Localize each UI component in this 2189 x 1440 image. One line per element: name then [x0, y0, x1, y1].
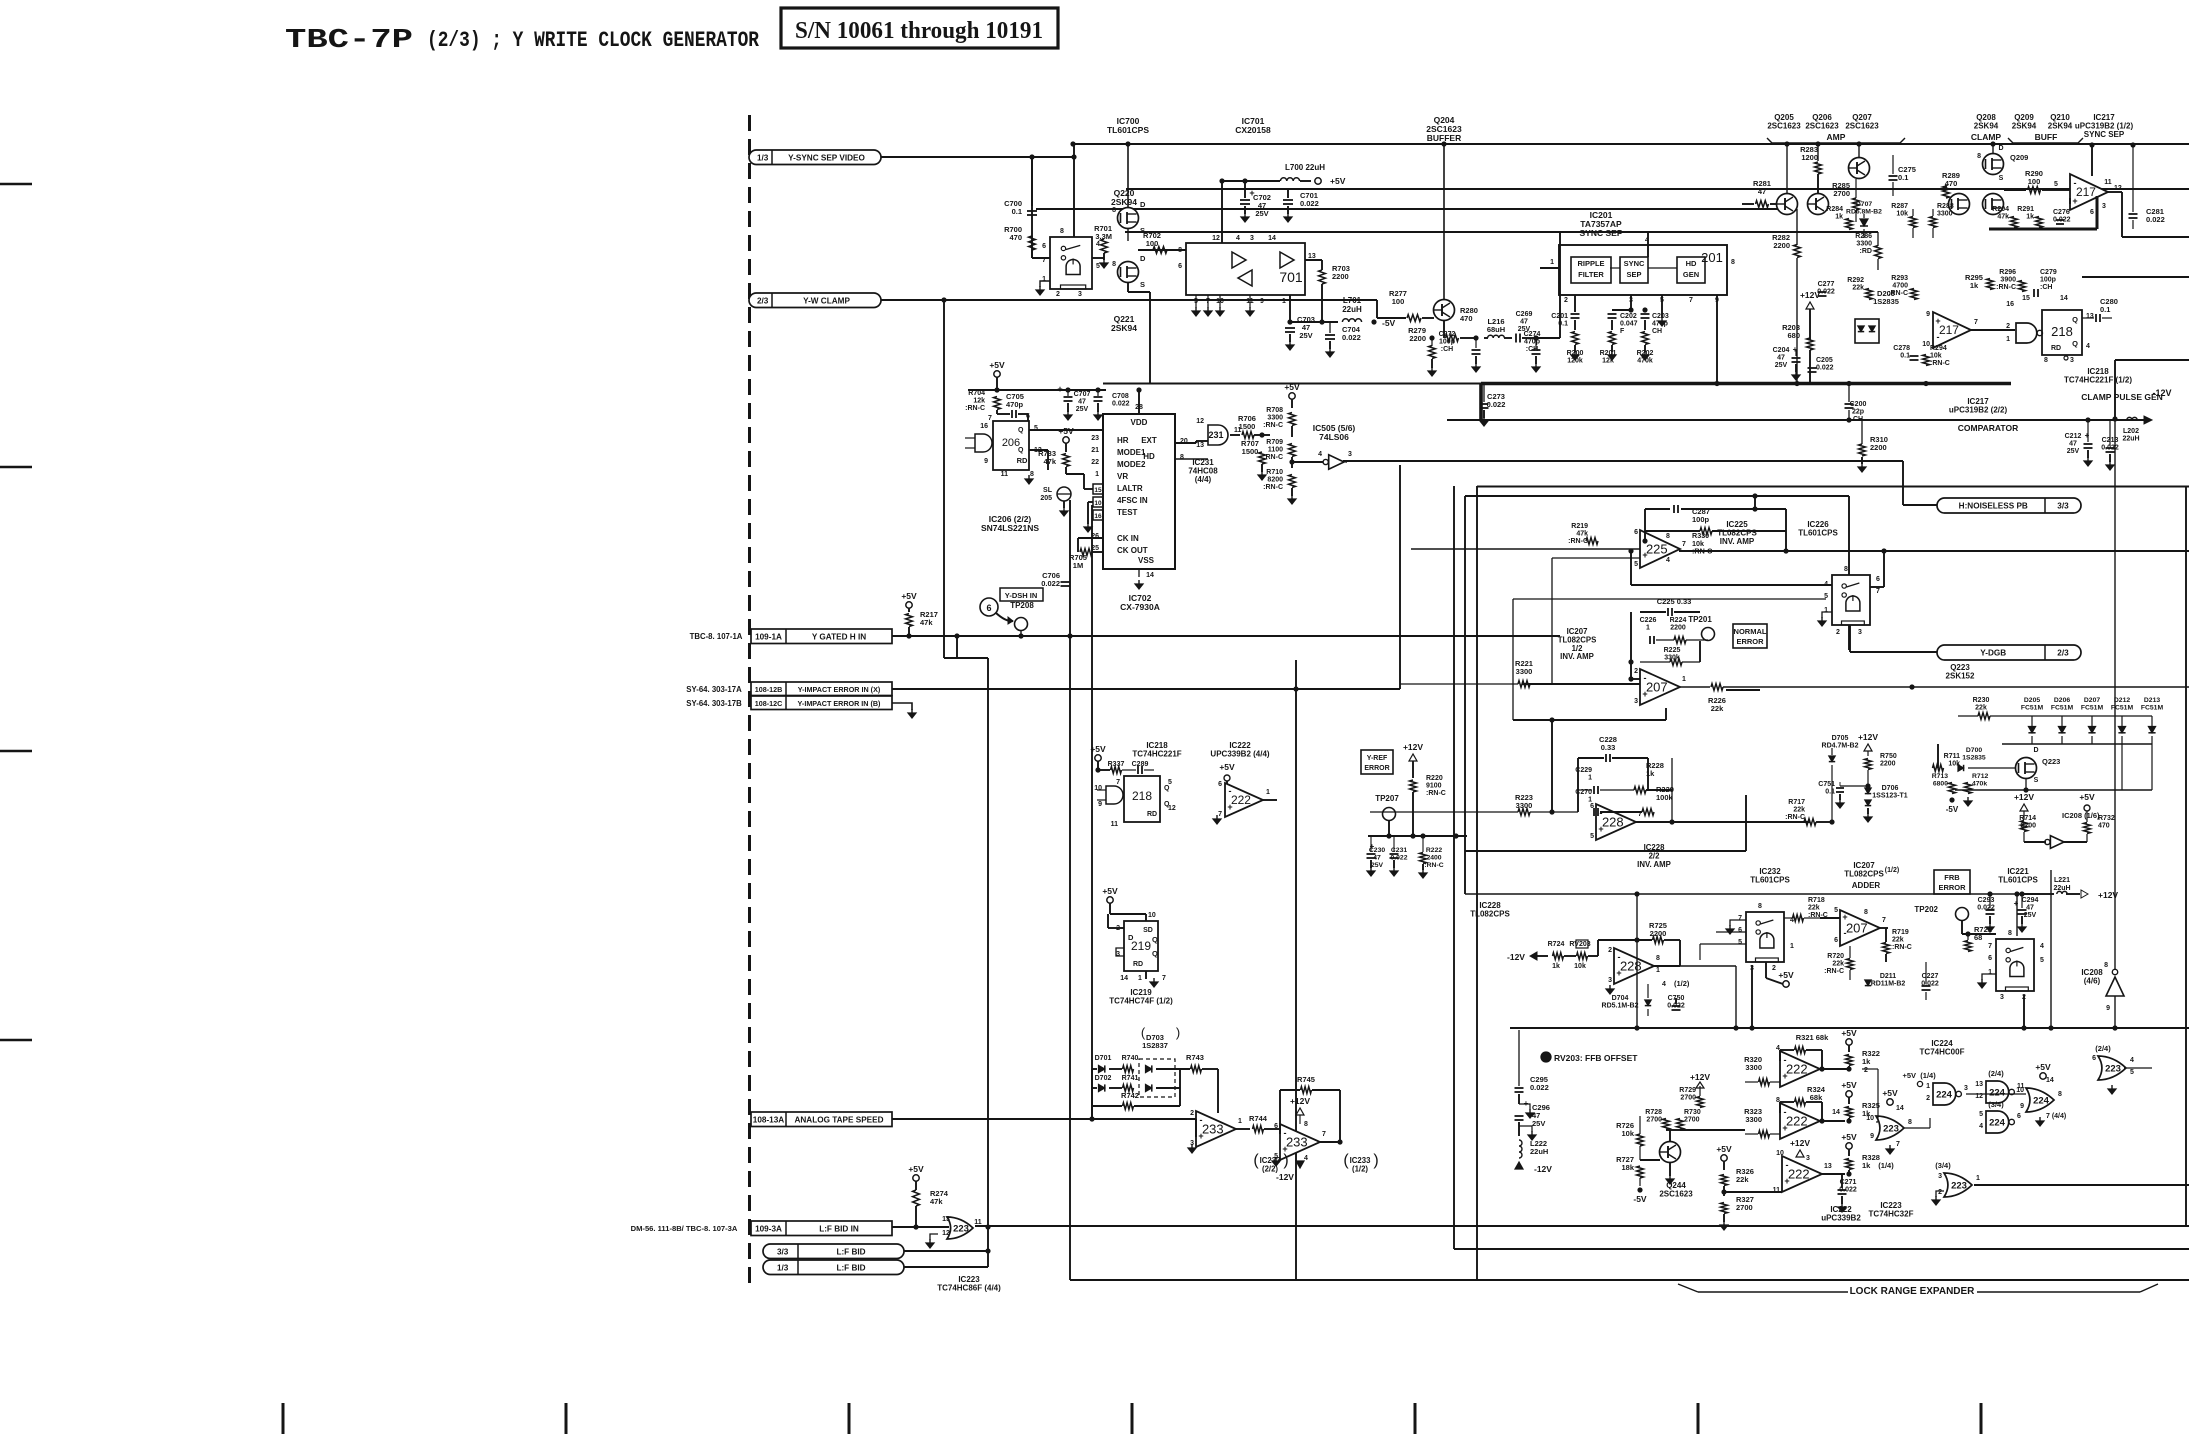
svg-text:22p: 22p: [1852, 409, 1864, 416]
svg-text:8: 8: [1178, 247, 1182, 254]
svg-text:701: 701: [1279, 269, 1303, 285]
svg-text:EXT: EXT: [1141, 436, 1157, 445]
svg-text:2SK94: 2SK94: [2012, 122, 2037, 131]
svg-text:218: 218: [1132, 789, 1152, 803]
svg-text:C202: C202: [1620, 313, 1637, 320]
svg-text:2700: 2700: [1646, 1117, 1662, 1124]
svg-text:D211: D211: [1880, 973, 1896, 980]
svg-text:ERROR: ERROR: [1938, 883, 1966, 892]
svg-text:10: 10: [1866, 1115, 1874, 1122]
svg-text:TL601CPS: TL601CPS: [1998, 876, 2038, 885]
svg-text:-12V: -12V: [2152, 388, 2171, 398]
svg-text:D: D: [1140, 200, 1146, 209]
svg-text:22k: 22k: [1711, 704, 1724, 713]
svg-text:0.022: 0.022: [1112, 401, 1130, 408]
svg-text:25V: 25V: [1076, 406, 1089, 413]
svg-text:25V: 25V: [1532, 1119, 1545, 1128]
svg-text:VR: VR: [1117, 472, 1128, 481]
svg-text:10k: 10k: [1930, 353, 1942, 360]
svg-text:1: 1: [1824, 607, 1828, 614]
svg-text:R740: R740: [1122, 1055, 1139, 1062]
svg-text:1: 1: [2006, 336, 2010, 343]
svg-text:47: 47: [2026, 905, 2034, 912]
svg-text:3: 3: [2102, 203, 2106, 210]
svg-text:9: 9: [1870, 1133, 1874, 1140]
svg-text:TL601CPS: TL601CPS: [1107, 125, 1149, 135]
svg-text:+5V: +5V: [1841, 1132, 1857, 1142]
svg-text:7: 7: [1218, 811, 1222, 818]
svg-text:25: 25: [1091, 545, 1099, 552]
svg-text:(4/4): (4/4): [1195, 475, 1212, 484]
svg-text:1: 1: [1976, 1175, 1980, 1182]
svg-text:22k: 22k: [1832, 961, 1844, 968]
svg-text:2200: 2200: [1773, 241, 1790, 250]
svg-text:ADDER: ADDER: [1852, 881, 1881, 890]
svg-text:CX-7930A: CX-7930A: [1120, 602, 1160, 612]
svg-text:1100: 1100: [1268, 447, 1283, 454]
svg-text:7: 7: [1689, 297, 1693, 304]
svg-text:(1/4): (1/4): [1878, 1161, 1894, 1170]
svg-text:R718: R718: [1808, 897, 1825, 904]
svg-text:25V: 25V: [1371, 862, 1384, 869]
svg-text:TL601CPS: TL601CPS: [1798, 529, 1838, 538]
svg-text:224: 224: [2033, 1095, 2050, 1106]
svg-text:D705: D705: [1832, 735, 1849, 742]
svg-text:3300: 3300: [1516, 801, 1533, 810]
svg-text:9: 9: [1260, 298, 1264, 305]
svg-text:10: 10: [1094, 785, 1102, 792]
svg-text:1: 1: [1238, 1118, 1242, 1125]
svg-text:FILTER: FILTER: [1578, 270, 1604, 279]
svg-text:D: D: [1998, 145, 2003, 152]
svg-text:TL601CPS: TL601CPS: [1750, 876, 1790, 885]
svg-text:Y GATED H IN: Y GATED H IN: [812, 632, 866, 641]
svg-text:R296: R296: [1999, 269, 2016, 276]
svg-text:R200: R200: [1567, 350, 1584, 357]
svg-text:C279: C279: [2040, 269, 2057, 276]
svg-text:1: 1: [1095, 471, 1099, 478]
svg-text:7: 7: [1738, 915, 1742, 922]
svg-text:6: 6: [986, 603, 991, 613]
svg-text::RN-C: :RN-C: [1263, 454, 1283, 461]
svg-text:22uH: 22uH: [1530, 1147, 1548, 1156]
svg-text:R337: R337: [1108, 761, 1125, 768]
svg-text:RIPPLE: RIPPLE: [1577, 259, 1604, 268]
svg-text:5: 5: [1979, 1111, 1983, 1118]
svg-text:2SC1623: 2SC1623: [1659, 1190, 1693, 1199]
svg-text:D707: D707: [1856, 201, 1872, 208]
svg-text:R712: R712: [1972, 773, 1988, 780]
svg-text:LALTR: LALTR: [1117, 484, 1143, 493]
svg-text:0.022: 0.022: [1041, 579, 1060, 588]
svg-text:D206: D206: [2054, 697, 2070, 704]
svg-text:6: 6: [1634, 529, 1638, 536]
svg-text:+: +: [1784, 1176, 1789, 1186]
svg-text:2SC1623: 2SC1623: [1845, 122, 1879, 131]
svg-text:R219: R219: [1571, 523, 1588, 530]
svg-text:C203: C203: [1652, 313, 1669, 320]
svg-text:10: 10: [1922, 341, 1930, 348]
svg-text:74LS06: 74LS06: [1319, 432, 1349, 442]
svg-text:3: 3: [1116, 951, 1120, 958]
svg-text:1/3: 1/3: [757, 153, 769, 162]
svg-text:14: 14: [1268, 235, 1276, 242]
svg-text:5: 5: [2054, 181, 2058, 188]
svg-text:TC74HC32F: TC74HC32F: [1869, 1210, 1914, 1219]
svg-text:7 (4/4): 7 (4/4): [2046, 1113, 2066, 1120]
svg-text:11: 11: [1001, 471, 1009, 478]
svg-text:15: 15: [2022, 295, 2030, 302]
svg-text:R742: R742: [1121, 1091, 1139, 1100]
svg-text:+5V: +5V: [1882, 1088, 1898, 1098]
svg-text:12: 12: [2114, 185, 2122, 192]
svg-text:+5V: +5V: [908, 1164, 924, 1174]
svg-text:(1/2): (1/2): [1674, 979, 1690, 988]
svg-text:R284: R284: [1826, 206, 1843, 213]
svg-text:-: -: [1937, 332, 1940, 342]
svg-text:22k: 22k: [1736, 1175, 1749, 1184]
svg-text:Q: Q: [1164, 785, 1170, 792]
svg-text:MODE1: MODE1: [1117, 448, 1146, 457]
svg-text:6: 6: [1274, 1123, 1278, 1130]
svg-text:8: 8: [1864, 909, 1868, 916]
svg-text:-: -: [1600, 808, 1603, 818]
svg-text:+: +: [1198, 1131, 1203, 1141]
svg-text:1k: 1k: [1552, 963, 1560, 970]
svg-text:22k: 22k: [1852, 285, 1864, 292]
svg-text:2SC1623: 2SC1623: [1767, 122, 1801, 131]
svg-text:22uH: 22uH: [1342, 305, 1362, 314]
svg-text:RD4.7M-B2: RD4.7M-B2: [1822, 743, 1859, 750]
svg-text:C212: C212: [2065, 433, 2082, 440]
svg-text:14: 14: [1896, 1105, 1904, 1112]
svg-text:1200: 1200: [1801, 153, 1818, 162]
svg-text:100p: 100p: [2040, 277, 2056, 284]
svg-text:6: 6: [1218, 781, 1222, 788]
svg-text:+5V: +5V: [1090, 744, 1106, 754]
svg-text:2/3: 2/3: [757, 296, 769, 305]
svg-text:RD: RD: [1017, 456, 1028, 465]
svg-text:Y-DSH IN: Y-DSH IN: [1005, 591, 1038, 600]
svg-text:(1/4): (1/4): [1920, 1071, 1936, 1080]
svg-text:470k: 470k: [1637, 358, 1653, 365]
svg-text:11: 11: [974, 1219, 982, 1226]
svg-text:D207: D207: [2084, 697, 2100, 704]
svg-text:R201: R201: [1600, 350, 1617, 357]
svg-text:): ): [1283, 1152, 1288, 1169]
svg-text:VDD: VDD: [1131, 418, 1148, 427]
svg-text:R708: R708: [1266, 407, 1283, 414]
svg-text:+: +: [1524, 1099, 1529, 1108]
svg-text:CH: CH: [1652, 328, 1662, 335]
svg-text:(1/2): (1/2): [1885, 867, 1899, 874]
svg-text:uPC319B2 (2/2): uPC319B2 (2/2): [1949, 406, 2008, 415]
svg-text:2: 2: [2006, 323, 2010, 330]
svg-text:2: 2: [1190, 1110, 1194, 1117]
svg-text:+: +: [1842, 912, 1847, 922]
svg-text:470: 470: [1009, 233, 1022, 242]
svg-text:C204: C204: [1773, 347, 1790, 354]
svg-text:C276: C276: [2053, 209, 2070, 216]
svg-text::CH: :CH: [1441, 346, 1453, 353]
svg-text:10: 10: [1148, 912, 1156, 919]
svg-text::RN-C: :RN-C: [1996, 284, 2016, 291]
svg-text:2: 2: [1772, 965, 1776, 972]
svg-text:+: +: [2085, 431, 2090, 440]
svg-text:IC208 (1/6): IC208 (1/6): [2062, 811, 2100, 820]
svg-text:+5V: +5V: [1330, 176, 1346, 186]
svg-text:6: 6: [1178, 263, 1182, 270]
svg-text:1/3: 1/3: [777, 1263, 789, 1272]
svg-text:): ): [1373, 1152, 1378, 1169]
svg-text:D704: D704: [1612, 995, 1629, 1002]
svg-text:INV. AMP: INV. AMP: [1637, 860, 1671, 869]
svg-text::RN-C: :RN-C: [1892, 944, 1912, 951]
svg-text:22k: 22k: [1892, 937, 1904, 944]
svg-text:5: 5: [1738, 939, 1742, 946]
svg-text:(1/2): (1/2): [1352, 1164, 1368, 1173]
svg-text:-: -: [1618, 952, 1621, 962]
svg-text:18k: 18k: [1621, 1163, 1634, 1172]
svg-text:C708: C708: [1112, 393, 1129, 400]
svg-text:R709: R709: [1266, 439, 1283, 446]
svg-text:6: 6: [2017, 1113, 2021, 1120]
svg-text:225: 225: [1646, 542, 1668, 557]
svg-text:R220: R220: [1426, 775, 1443, 782]
svg-text:47k: 47k: [920, 618, 933, 627]
svg-text:3: 3: [1858, 629, 1862, 636]
svg-text:Y-DGB: Y-DGB: [1980, 649, 2006, 658]
svg-text:14: 14: [1832, 1109, 1840, 1116]
svg-text:7: 7: [1896, 1141, 1900, 1148]
svg-text:11: 11: [2104, 179, 2112, 186]
svg-text:13: 13: [942, 1216, 950, 1223]
svg-text:2200: 2200: [1332, 272, 1349, 281]
svg-text:+: +: [1782, 1071, 1787, 1081]
svg-text:(3/4): (3/4): [1988, 1100, 2004, 1109]
svg-text:Q: Q: [1152, 935, 1158, 944]
svg-text:R730: R730: [1684, 1109, 1701, 1116]
svg-text:4700: 4700: [1892, 283, 1908, 290]
svg-text:R743: R743: [1186, 1053, 1204, 1062]
svg-text:FC51M: FC51M: [2141, 704, 2164, 711]
svg-text:+5V: +5V: [1902, 1071, 1916, 1080]
svg-text:1k: 1k: [1862, 1057, 1871, 1066]
svg-text:Q: Q: [1018, 427, 1024, 434]
svg-text:222: 222: [1231, 793, 1251, 807]
svg-text:47k: 47k: [1576, 531, 1588, 538]
svg-text:TL082CPS: TL082CPS: [1470, 910, 1510, 919]
svg-text:D213: D213: [2144, 697, 2160, 704]
svg-text:C278: C278: [1893, 345, 1910, 352]
svg-text:3300: 3300: [1745, 1063, 1762, 1072]
svg-text:222: 222: [1788, 1167, 1810, 1182]
svg-text:BUFF: BUFF: [2035, 132, 2058, 142]
svg-text::RN-C: :RN-C: [1568, 538, 1588, 545]
svg-text:2700: 2700: [1736, 1203, 1753, 1212]
svg-text:+: +: [1782, 1123, 1787, 1133]
svg-text:-12V: -12V: [1276, 1172, 1294, 1182]
svg-text:4: 4: [1979, 1123, 1983, 1130]
svg-text:1k: 1k: [1970, 281, 1979, 290]
svg-text:3300: 3300: [1267, 415, 1283, 422]
svg-text:224: 224: [1989, 1088, 2006, 1099]
svg-text::RN-C: :RN-C: [1426, 790, 1446, 797]
svg-text:+: +: [1935, 316, 1940, 326]
svg-text:3: 3: [1806, 1155, 1810, 1162]
svg-text:8: 8: [2008, 930, 2012, 937]
svg-text:R711: R711: [1944, 753, 1960, 760]
svg-text:7: 7: [1322, 1131, 1326, 1138]
svg-text:9100: 9100: [1426, 783, 1442, 790]
svg-text:12: 12: [1196, 418, 1204, 425]
svg-text:+: +: [1598, 824, 1603, 834]
svg-text:8: 8: [1758, 903, 1762, 910]
svg-text:+: +: [2014, 899, 2019, 908]
svg-text:25V: 25V: [1775, 362, 1788, 369]
svg-text:6: 6: [1738, 927, 1742, 934]
svg-text:205: 205: [1040, 495, 1052, 502]
svg-text:5: 5: [1590, 833, 1594, 840]
svg-text:D205: D205: [2024, 697, 2040, 704]
svg-text:0.33: 0.33: [1601, 743, 1616, 752]
svg-text:1k: 1k: [1862, 1161, 1871, 1170]
svg-text:3900: 3900: [2000, 277, 2016, 284]
svg-text:-: -: [1200, 1115, 1203, 1125]
svg-text:R222: R222: [1426, 847, 1442, 854]
svg-text:2: 2: [1938, 1189, 1942, 1196]
svg-text:1: 1: [1282, 298, 1286, 305]
svg-text:C751: C751: [1818, 781, 1835, 788]
svg-text:1500: 1500: [1242, 447, 1259, 456]
svg-text:SY-64. 303-17A: SY-64. 303-17A: [686, 685, 742, 694]
svg-text:1: 1: [1646, 625, 1650, 632]
svg-text:1M: 1M: [1073, 561, 1083, 570]
svg-text:5: 5: [2040, 957, 2044, 964]
svg-text:470p: 470p: [1006, 400, 1024, 409]
svg-text:TP201: TP201: [1688, 615, 1712, 624]
svg-text:Q: Q: [1018, 447, 1024, 454]
svg-text:217: 217: [1939, 323, 1959, 337]
svg-text:+12V: +12V: [1290, 1096, 1310, 1106]
svg-text:+5V: +5V: [1716, 1144, 1732, 1154]
svg-text:207: 207: [1646, 680, 1668, 695]
svg-text:8: 8: [1908, 1119, 1912, 1126]
svg-text:4: 4: [2130, 1057, 2134, 1064]
svg-text:2200: 2200: [1870, 443, 1887, 452]
svg-text:SEP: SEP: [1626, 270, 1641, 279]
svg-text:S/N 10061 through 10191: S/N 10061 through 10191: [795, 18, 1043, 44]
svg-text:1k: 1k: [1646, 769, 1655, 778]
svg-text:3: 3: [1348, 451, 1352, 458]
svg-text:1: 1: [1266, 789, 1270, 796]
svg-text:8200: 8200: [1267, 477, 1283, 484]
svg-text:CX20158: CX20158: [1235, 125, 1271, 135]
svg-text:D: D: [1128, 933, 1134, 942]
svg-text:1: 1: [1790, 943, 1794, 950]
svg-text:2: 2: [1056, 291, 1060, 298]
svg-text:-: -: [1784, 1055, 1787, 1065]
svg-text:47k: 47k: [930, 1197, 943, 1206]
svg-text:2200: 2200: [1650, 929, 1667, 938]
svg-text:0.022: 0.022: [1816, 365, 1834, 372]
svg-text:14: 14: [2060, 295, 2068, 302]
svg-text:6: 6: [2090, 209, 2094, 216]
svg-text:218: 218: [2051, 324, 2073, 339]
svg-text:2SK94: 2SK94: [1111, 197, 1137, 207]
svg-text:Y-IMPACT ERROR IN (X): Y-IMPACT ERROR IN (X): [798, 685, 881, 694]
svg-text:R293: R293: [1891, 275, 1908, 282]
svg-text:0.022: 0.022: [1300, 199, 1319, 208]
svg-text:C707: C707: [1074, 391, 1091, 398]
svg-text:0.1: 0.1: [1012, 207, 1022, 216]
svg-text:9: 9: [2020, 1103, 2024, 1110]
svg-text:3: 3: [1634, 698, 1638, 705]
svg-text:12: 12: [1212, 235, 1220, 242]
svg-text:4: 4: [1662, 981, 1666, 988]
svg-text:-: -: [1784, 1107, 1787, 1117]
svg-text:+: +: [1057, 384, 1062, 394]
svg-text:SD: SD: [1143, 927, 1153, 934]
svg-text:MODE2: MODE2: [1117, 460, 1146, 469]
svg-text:D700: D700: [1966, 747, 1982, 754]
svg-text:1S2837: 1S2837: [1142, 1041, 1168, 1050]
svg-text:8: 8: [1180, 454, 1184, 461]
svg-text:4: 4: [1236, 235, 1240, 242]
svg-text:Y-REF: Y-REF: [1367, 755, 1388, 762]
svg-text:219: 219: [1131, 939, 1151, 953]
svg-text:2: 2: [1926, 1095, 1930, 1102]
svg-text:CLAMP PULSE GEN: CLAMP PULSE GEN: [2081, 392, 2163, 402]
svg-text:222: 222: [1786, 1062, 1808, 1077]
svg-text:470k: 470k: [1972, 780, 1987, 787]
svg-text:6: 6: [1026, 413, 1030, 420]
svg-text:TEST: TEST: [1117, 508, 1138, 517]
svg-text:TC74HC86F (4/4): TC74HC86F (4/4): [937, 1284, 1001, 1293]
svg-text:1S2835: 1S2835: [1962, 754, 1986, 761]
svg-text:L701: L701: [1343, 296, 1362, 305]
svg-text:6: 6: [1834, 937, 1838, 944]
svg-text:10k: 10k: [1896, 211, 1908, 218]
svg-text:5: 5: [1634, 561, 1638, 568]
svg-text::RN-C: :RN-C: [1263, 422, 1283, 429]
svg-text:12k: 12k: [1602, 358, 1614, 365]
svg-text:+5V: +5V: [1778, 970, 1794, 980]
svg-text:INV. AMP: INV. AMP: [1560, 652, 1594, 661]
svg-text:1: 1: [1926, 1083, 1930, 1090]
svg-text:2: 2: [1836, 629, 1840, 636]
svg-text:8: 8: [2104, 962, 2108, 969]
svg-text:RD: RD: [2051, 345, 2061, 352]
svg-text:ERROR: ERROR: [1736, 637, 1764, 646]
svg-text::RD: :RD: [1860, 248, 1872, 255]
svg-text:R729: R729: [1679, 1087, 1696, 1094]
svg-text:233: 233: [1286, 1135, 1308, 1150]
svg-text:7: 7: [988, 415, 992, 422]
svg-text:9: 9: [1926, 311, 1930, 318]
svg-text:D701: D701: [1095, 1055, 1112, 1062]
svg-text:TP207: TP207: [1375, 794, 1399, 803]
svg-text:-: -: [2074, 178, 2077, 188]
svg-text:2/3: 2/3: [2057, 649, 2069, 658]
svg-text:SY-64. 303-17B: SY-64. 303-17B: [686, 699, 742, 708]
svg-text:25V: 25V: [1299, 331, 1312, 340]
svg-text:-5V: -5V: [1633, 1194, 1647, 1204]
svg-text:3/3: 3/3: [777, 1247, 789, 1256]
svg-text:7: 7: [1682, 541, 1686, 548]
svg-text:Y-W CLAMP: Y-W CLAMP: [803, 296, 850, 305]
svg-text:C231: C231: [1391, 847, 1407, 854]
